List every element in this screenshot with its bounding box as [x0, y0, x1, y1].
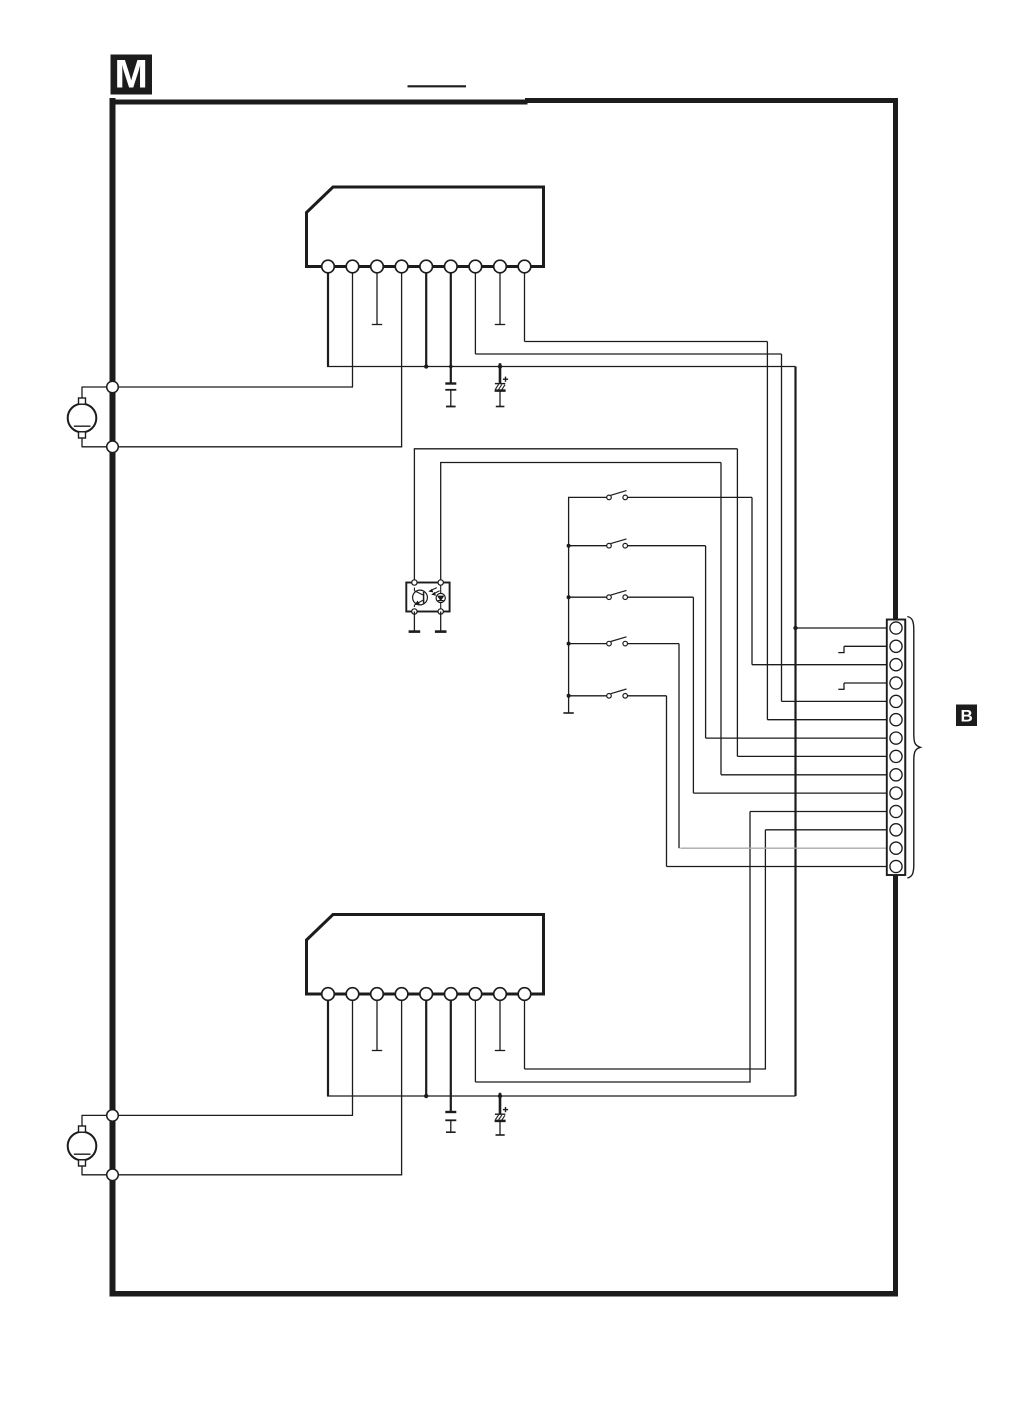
- label B: [956, 705, 977, 727]
- connector B pins 1-14: [890, 622, 902, 634]
- wire U1 pin2 down: [352, 267, 354, 388]
- capacitor C2 polarized: [499, 363, 502, 384]
- stub U1 pin3: [376, 267, 378, 325]
- wire net A vertical to connector pin1 and net B: [794, 367, 796, 1097]
- PH1 phototransistor: [413, 590, 428, 605]
- wire connector pin13 from switch S4 grey: [680, 847, 888, 849]
- PH1 light arrows: [430, 588, 437, 591]
- node U1 pin5 junction: [424, 364, 428, 368]
- U2 pins 1-9: [322, 988, 335, 1001]
- switch S1: [568, 496, 607, 498]
- wire connector pin12 to U2 pin9: [765, 829, 888, 831]
- wire U1 pin9 to connector pin6: [524, 267, 526, 342]
- node switch bus junction 3: [567, 595, 571, 599]
- section label M: [111, 55, 153, 95]
- node switch bus junction 4: [567, 642, 571, 646]
- switch S5: [568, 695, 607, 697]
- stub U2 pin3: [376, 994, 378, 1051]
- wire U2 pin2 down: [352, 994, 354, 1115]
- PH1 led: [436, 593, 445, 602]
- photo interrupter PH1: [406, 583, 449, 612]
- U1 pins 1-9: [322, 260, 335, 273]
- wire U1 pin5 to net A: [425, 267, 427, 367]
- PH1 terminals: [412, 580, 417, 585]
- capacitor C1: [445, 382, 456, 384]
- wire motor M1 upper lead: [82, 386, 354, 388]
- wire S5 to connector pin14: [666, 696, 668, 867]
- sheet border top right segment: [525, 98, 898, 103]
- stub U2 pin8: [499, 994, 501, 1051]
- wire U2 pin7 to connector pin11: [474, 994, 476, 1082]
- sheet border bottom: [110, 1291, 899, 1297]
- wire S3 to connector pin10: [692, 597, 694, 793]
- node U2 pin5 junction: [424, 1094, 428, 1098]
- node C4 junction on net B: [498, 1094, 502, 1098]
- brace connector B: [907, 617, 920, 879]
- svg-text:B: B: [960, 707, 972, 726]
- node net A at connector pin1: [793, 626, 797, 630]
- node C2 junction on net A: [498, 364, 502, 368]
- wire S4 to connector pin13: [678, 644, 680, 849]
- wire connector pin14 from switch S5: [667, 866, 889, 868]
- wire U2 pin5 to net B: [425, 994, 427, 1096]
- wire PH1 led-side lead to connector pin9: [440, 463, 442, 583]
- wire PH1 emitter-side lead to connector pin8: [413, 449, 415, 583]
- switch S3: [568, 596, 607, 598]
- node C1 crossing: [449, 365, 453, 369]
- driver IC U1: [307, 187, 544, 267]
- wire motor M2 upper lead: [82, 1114, 354, 1116]
- wire motor M2 lower lead: [82, 1174, 403, 1176]
- stub U1 pin8: [499, 267, 501, 325]
- sheet border top left segment: [110, 100, 528, 105]
- svg-text:M: M: [115, 53, 148, 97]
- wire connector pin8: [737, 755, 888, 757]
- wire connector pin11 to U2 pin7: [750, 811, 889, 813]
- wire U2 pin9 to connector pin12: [524, 994, 526, 1069]
- capacitor C3: [445, 1111, 456, 1113]
- wire U2 pin4 down: [401, 994, 403, 1175]
- motor M1: [68, 404, 97, 433]
- ground PH1 left: [413, 612, 415, 632]
- wire connector pin7 from switch S2: [706, 737, 889, 739]
- wire S1 to connector pin3: [751, 497, 753, 664]
- wire U1 pin4 down: [401, 267, 403, 447]
- ground PH1 right: [440, 612, 442, 632]
- connector B body: [887, 620, 905, 876]
- wire connector pin5: [782, 700, 889, 702]
- wire connector pin3 from switch S1: [752, 664, 889, 666]
- wire connector pin1 from net A: [796, 627, 889, 629]
- wire U2 pin1 to net B: [327, 994, 329, 1096]
- wire net A horizontal: [327, 366, 796, 368]
- wire U2 pin6 to capacitor C3: [450, 994, 452, 1112]
- motor M2: [68, 1132, 97, 1161]
- wire net B horizontal: [327, 1095, 796, 1097]
- node M2 upper on border: [107, 1110, 119, 1122]
- node switch bus junction 5: [567, 694, 571, 698]
- wire connector pin6: [767, 719, 888, 721]
- capacitor C4 polarized: [499, 1093, 502, 1114]
- wire S2 to connector pin7: [705, 546, 707, 738]
- node switch bus junction 2: [567, 544, 571, 548]
- sheet border left: [110, 98, 116, 1297]
- title underline: [408, 85, 467, 87]
- switch S2: [568, 545, 607, 547]
- wire motor M1 lower lead: [82, 446, 403, 448]
- node M2 lower on border: [107, 1169, 119, 1181]
- stub connector pin4: [844, 682, 889, 684]
- node M1 lower on border: [107, 441, 119, 453]
- wire connector pin10 from switch S3: [693, 792, 888, 794]
- node M1 upper on border: [107, 381, 119, 393]
- driver IC U2: [307, 915, 544, 995]
- switch S4: [568, 643, 607, 645]
- stub connector pin2: [844, 645, 889, 647]
- wire U1 pin1 to net A: [327, 267, 329, 367]
- wire switch common bus: [568, 497, 570, 713]
- wire U1 pin6 to capacitor C1: [450, 267, 452, 384]
- wire connector pin9: [721, 774, 889, 776]
- wire U1 pin7 to connector pin5: [474, 267, 476, 355]
- sheet border right: [893, 98, 898, 1297]
